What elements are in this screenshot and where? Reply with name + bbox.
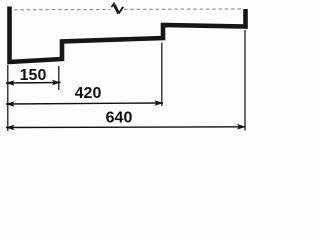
svg-text:420: 420	[75, 85, 102, 102]
svg-text:640: 640	[106, 110, 133, 127]
svg-text:150: 150	[20, 67, 47, 84]
